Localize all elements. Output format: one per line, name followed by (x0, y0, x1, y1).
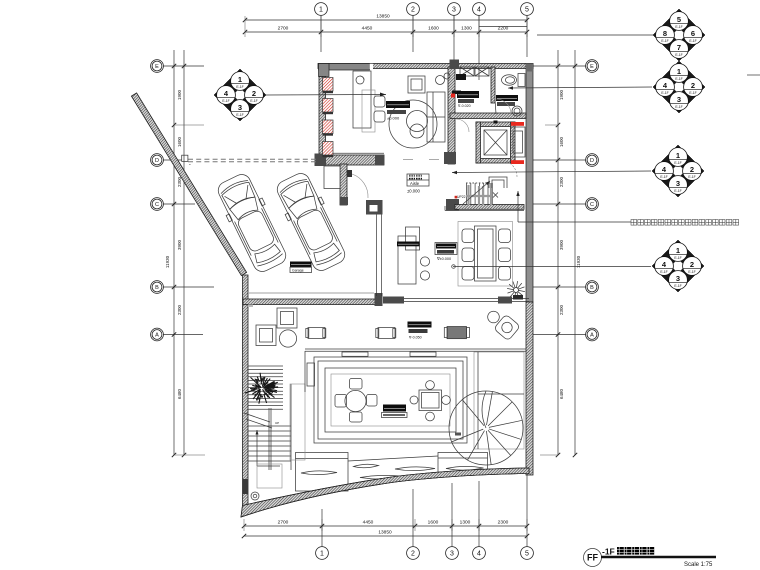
svg-text:E-1F: E-1F (674, 161, 681, 165)
svg-text:A: A (155, 332, 159, 338)
svg-text:4: 4 (477, 7, 481, 14)
svg-text:-1F: -1F (602, 547, 615, 557)
svg-text:4450: 4450 (363, 520, 374, 526)
svg-text:1600: 1600 (428, 520, 439, 526)
svg-text:E-1F: E-1F (661, 91, 668, 95)
svg-text:B: B (590, 285, 594, 291)
svg-text:E-1F: E-1F (688, 270, 695, 274)
svg-text:1300: 1300 (461, 26, 472, 32)
svg-text:E-1F: E-1F (675, 105, 682, 109)
svg-text:1300: 1300 (460, 520, 471, 526)
svg-text:±0.000: ±0.000 (407, 189, 420, 194)
svg-text:E-1F: E-1F (675, 53, 682, 57)
svg-text:E-1F: E-1F (236, 113, 243, 117)
svg-text:C: C (590, 202, 594, 208)
svg-text:E-1F: E-1F (660, 270, 667, 274)
svg-text:5: 5 (525, 551, 529, 558)
svg-text:3: 3 (238, 103, 242, 112)
svg-text:2300: 2300 (498, 520, 509, 526)
svg-text:1: 1 (676, 151, 680, 160)
svg-text:8: 8 (663, 29, 667, 38)
svg-text:1: 1 (319, 7, 323, 14)
svg-text:11930: 11930 (165, 255, 170, 268)
svg-text:3: 3 (677, 95, 681, 104)
svg-text:2700: 2700 (278, 520, 289, 526)
svg-text:1: 1 (677, 67, 681, 76)
svg-text:2: 2 (252, 89, 256, 98)
svg-text:E-1F: E-1F (689, 39, 696, 43)
svg-text:1600: 1600 (559, 136, 564, 147)
svg-text:E-1F: E-1F (674, 256, 681, 260)
svg-text:13850: 13850 (378, 530, 392, 536)
svg-text:UP22: UP22 (457, 195, 466, 199)
svg-text:3900: 3900 (559, 239, 564, 250)
svg-text:E-1F: E-1F (675, 77, 682, 81)
svg-text:E-1F: E-1F (675, 25, 682, 29)
svg-text:E-1F: E-1F (660, 175, 667, 179)
svg-text:2700: 2700 (278, 26, 289, 32)
svg-text:3900: 3900 (177, 239, 182, 250)
svg-text:2: 2 (411, 7, 415, 14)
svg-text:2300: 2300 (177, 304, 182, 315)
svg-text:E: E (155, 64, 159, 70)
svg-text:3: 3 (452, 7, 456, 14)
svg-text:5: 5 (525, 7, 529, 14)
svg-text:1: 1 (320, 551, 324, 558)
svg-text:D: D (155, 158, 159, 164)
svg-text:A: A (590, 332, 594, 338)
svg-text:E-1F: E-1F (689, 91, 696, 95)
svg-text:E-1F: E-1F (661, 39, 668, 43)
svg-text:FF: FF (587, 553, 598, 563)
svg-text:1600: 1600 (428, 26, 439, 32)
svg-text:3: 3 (676, 274, 680, 283)
svg-text:7: 7 (677, 43, 681, 52)
svg-text:Aisle: Aisle (410, 181, 420, 186)
svg-text:E-1F: E-1F (236, 85, 243, 89)
svg-text:E-1F: E-1F (674, 189, 681, 193)
svg-text:E: E (590, 64, 594, 70)
svg-text:2: 2 (411, 551, 415, 558)
svg-text:∇-0.020: ∇-0.020 (457, 104, 471, 108)
svg-text:1: 1 (676, 246, 680, 255)
svg-text:1: 1 (238, 75, 242, 84)
svg-text:2300: 2300 (559, 304, 564, 315)
svg-text:1900: 1900 (559, 89, 564, 100)
svg-text:6: 6 (691, 29, 695, 38)
svg-text:C: C (155, 202, 159, 208)
svg-text:6480: 6480 (177, 388, 182, 399)
svg-text:1900: 1900 (177, 89, 182, 100)
svg-text:4450: 4450 (362, 26, 373, 32)
svg-text:2: 2 (690, 260, 694, 269)
svg-text:13850: 13850 (376, 14, 390, 20)
svg-text:5: 5 (677, 15, 681, 24)
svg-text:3: 3 (450, 551, 454, 558)
svg-text:E-1F: E-1F (250, 99, 257, 103)
svg-text:∇±0.000: ∇±0.000 (436, 257, 451, 261)
svg-text:2300: 2300 (559, 176, 564, 187)
svg-text:E-1F: E-1F (674, 284, 681, 288)
svg-text:1600: 1600 (177, 136, 182, 147)
svg-text:2: 2 (690, 165, 694, 174)
svg-text:Garage: Garage (292, 269, 304, 273)
svg-text:D: D (590, 158, 594, 164)
svg-text:3: 3 (676, 179, 680, 188)
svg-text:E-1F: E-1F (222, 99, 229, 103)
svg-text:±0.000: ±0.000 (387, 116, 400, 121)
svg-text:2: 2 (691, 81, 695, 90)
svg-text:4: 4 (477, 551, 481, 558)
svg-text:Scale 1:75: Scale 1:75 (684, 562, 713, 568)
svg-text:6480: 6480 (559, 388, 564, 399)
svg-text:∇-0.050: ∇-0.050 (408, 336, 422, 340)
svg-text:E-1F: E-1F (688, 175, 695, 179)
svg-text:UP: UP (275, 421, 279, 425)
svg-text:B: B (155, 285, 159, 291)
